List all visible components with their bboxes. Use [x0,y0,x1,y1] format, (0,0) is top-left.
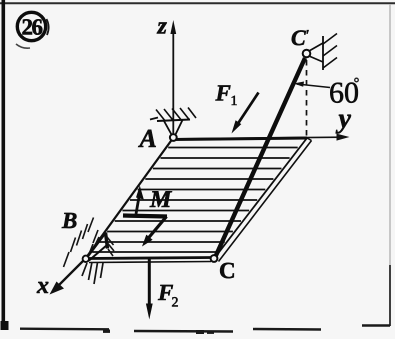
svg-text:x: x [36,273,49,299]
svg-text:60: 60 [329,77,359,110]
svg-text:C: C [219,258,236,283]
axis z [170,20,176,135]
hinge pin B [83,256,89,262]
force F1 arrow [232,93,259,134]
axis x [50,259,86,295]
rod C'C [216,58,306,257]
svg-text:M: M [149,187,173,213]
plate outline [86,138,308,259]
support at C' (wall bracket) [309,34,337,71]
frame right border [389,4,391,326]
force F2 arrow [146,259,153,320]
angle 60 leader arrow [294,82,331,88]
svg-text:B: B [61,208,77,233]
support hatching along edge AB [64,218,100,268]
axis y [180,134,350,141]
plate thickness edges [89,138,312,263]
svg-text:26: 26 [22,15,43,40]
svg-text:z: z [157,14,168,40]
hatching below B corner [82,262,103,284]
support at B (hinge bracket) [89,233,115,261]
frame top border [0,2,395,4]
hinge pin C' [303,50,311,58]
frame bottom border segments [20,326,390,332]
hinge pin A [170,134,177,141]
hinge pin C [211,255,218,262]
figure number badge 26 [16,12,49,48]
plate hatch lines [92,148,298,253]
svg-text:2: 2 [172,296,179,311]
bottom border ink blobs [103,330,214,335]
support at A (ceiling hinge) [150,108,196,135]
svg-text:1: 1 [231,94,238,109]
svg-text:F: F [215,81,231,106]
dashed construction line from C' [306,60,308,137]
moment M symbol [123,186,167,247]
svg-text:A: A [138,124,157,153]
label 60deg [329,77,359,110]
frame left border [1,0,9,330]
